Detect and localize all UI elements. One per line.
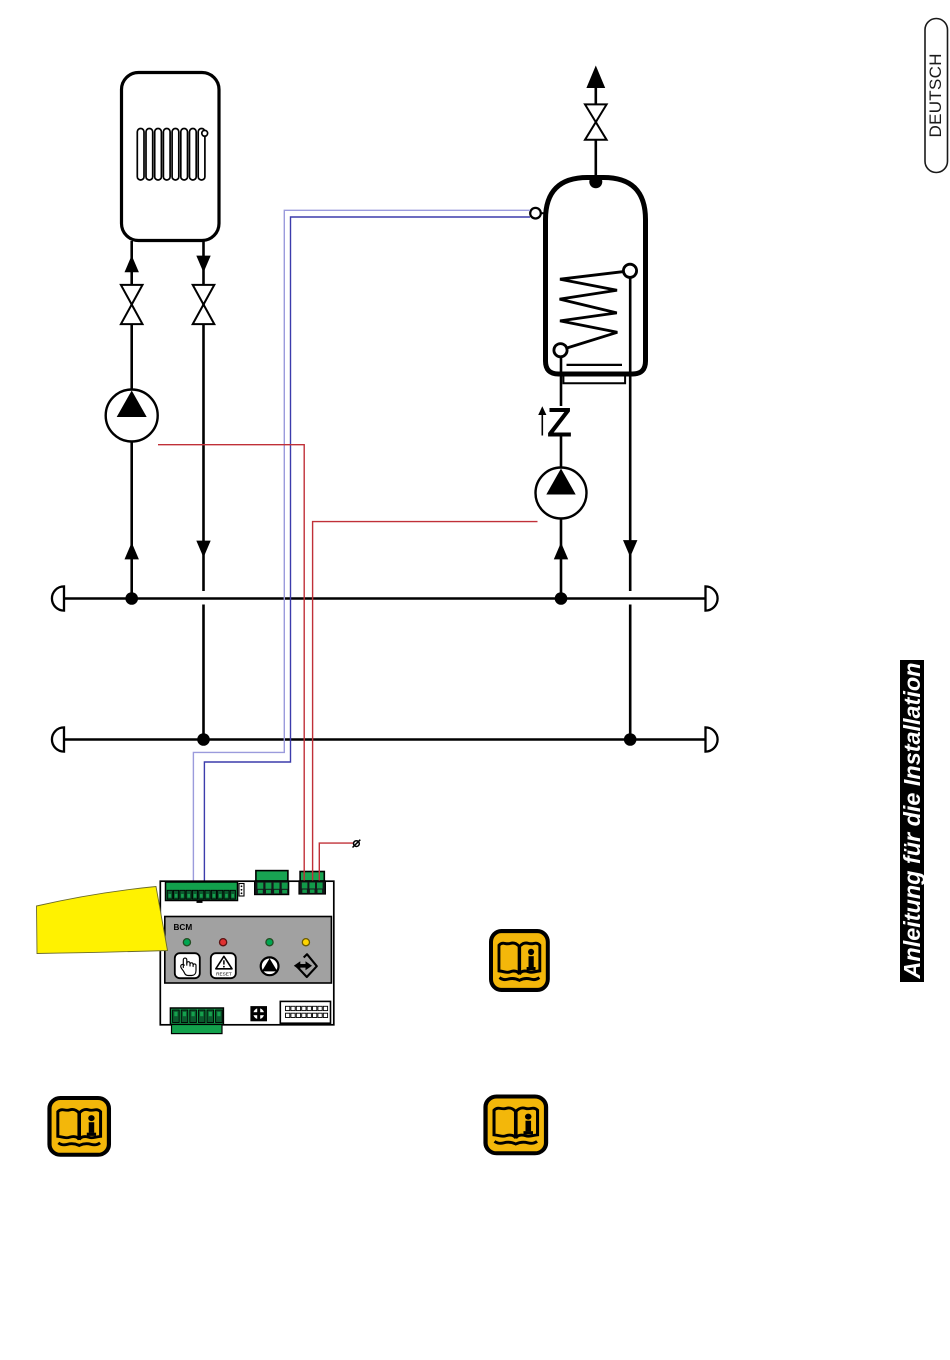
svg-text:Anleitung für die Installation: Anleitung für die Installation [899,663,925,980]
svg-text:BCM: BCM [174,923,193,932]
svg-text:DEUTSCH: DEUTSCH [926,53,945,137]
svg-text:Z: Z [547,401,571,445]
svg-text:RESET: RESET [216,972,232,977]
